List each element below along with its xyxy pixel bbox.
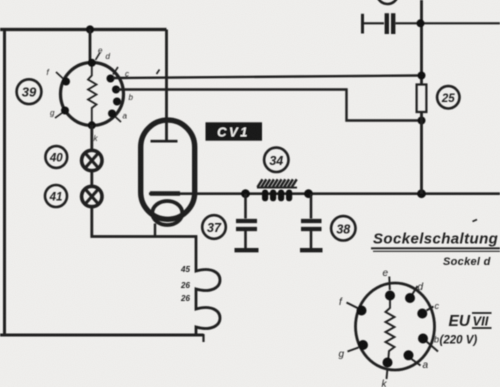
socket EU VII pin e (top) <box>383 268 396 301</box>
tube type text EU VII <box>449 313 492 330</box>
wire: lamp 41 down and across to heater dropper coil <box>92 206 196 268</box>
capacitor 37 lower lead <box>244 231 247 248</box>
terminal tick at end of bottom bus <box>202 334 204 342</box>
junction node at capacitor 38 <box>304 189 313 198</box>
capacitor 38 chassis bar <box>300 248 323 252</box>
capacitor 38 plates <box>301 221 322 229</box>
cathode electrode bar inside tube <box>150 191 180 196</box>
socket EU VII pin b <box>418 334 438 352</box>
socket EU VII outline <box>356 283 435 370</box>
grid wire 2: socket pin b with jog to resistor 25 bottom <box>117 90 422 121</box>
junction node at capacitor 37 <box>241 189 250 198</box>
socket EU VII pin a <box>404 350 429 371</box>
HT vertical bus upper section <box>420 0 423 85</box>
socket EU VII pin k (bottom) <box>382 358 393 387</box>
socket EU VII pin c <box>417 301 439 319</box>
dial lamp 40 <box>82 150 102 170</box>
socket 39 pin f <box>47 68 71 86</box>
tube socket 39 outline <box>61 63 124 126</box>
heading underline <box>371 247 500 249</box>
wire: socket 39 bottom pin to dial lamp 40 <box>90 125 93 151</box>
HT vertical bus lower section <box>420 112 423 194</box>
wire: top horizontal bus <box>0 28 167 31</box>
heading underline second stroke <box>373 250 500 252</box>
junction node at top wire and HT bus <box>417 19 425 27</box>
socket 39 pin c <box>112 70 129 94</box>
stray mark right of capacitor 38 <box>473 220 478 222</box>
choke 34 core baseline <box>257 187 297 189</box>
callout 34 <box>264 148 288 172</box>
pin b voltage label <box>434 335 477 347</box>
choke 34 winding loops <box>262 190 292 202</box>
callout 41 <box>45 185 67 207</box>
coupling capacitor plates (top right) <box>387 13 393 34</box>
callout 25 <box>437 86 459 108</box>
socket 39 pin a <box>108 110 128 123</box>
socket 39 pin g <box>50 107 69 119</box>
tube CV1 base stem wire <box>154 224 156 237</box>
resistor 25 <box>417 85 427 113</box>
capacitor 37 chassis bar <box>235 248 259 252</box>
dropper coil loops <box>196 268 220 335</box>
wire: lamp 40 to lamp 41 <box>90 170 93 187</box>
paper grain <box>0 0 1 1</box>
socket 39 pin k (bottom) <box>88 121 99 143</box>
choke 34 core hatching <box>258 179 297 187</box>
grid wire 1: socket pin c to resistor 25 top <box>113 76 422 79</box>
junction node at resistor 25 top <box>418 72 426 80</box>
wire: bottom horizontal bus <box>0 334 204 337</box>
callout 39 <box>17 79 42 104</box>
wire: drop from top bus to socket 39 pin e <box>89 30 92 65</box>
stray mark near pin c wire <box>157 70 160 75</box>
junction node at top bus and socket drop <box>86 25 94 33</box>
heater resistor inside socket 39 <box>88 63 97 125</box>
heater resistor inside socket EU VII <box>386 295 395 363</box>
cathode output wire across to right edge <box>149 192 500 195</box>
socket 39 pin e <box>88 46 103 67</box>
tube CV1 anode electrode <box>151 140 178 143</box>
capacitor 37 plates <box>236 221 257 229</box>
socket 39 pin b <box>113 93 134 106</box>
tube CV1 base circle <box>152 201 182 225</box>
tube CV1 envelope <box>141 120 195 219</box>
socket EU VII pin f <box>339 297 367 316</box>
capacitor 37 lead <box>244 194 247 219</box>
wire: anode drop from top bus into tube CV1 <box>165 30 168 141</box>
tube type label CV1 <box>206 122 263 140</box>
wire: left vertical bus <box>3 30 6 336</box>
socket EU VII pin d <box>405 282 424 303</box>
capacitor 38 lead <box>310 194 313 219</box>
junction node at HT bus bottom <box>417 189 426 198</box>
callout 37 <box>202 215 226 239</box>
callout 40 <box>45 146 67 168</box>
partial callout above top edge <box>377 0 398 4</box>
callout 38 <box>331 216 355 240</box>
socket 39 pin d <box>106 52 119 83</box>
top right feed wire <box>363 22 500 24</box>
socket EU VII pin g <box>339 340 369 360</box>
terminal bar <box>361 14 364 34</box>
junction node at resistor 25 bottom <box>418 117 426 125</box>
capacitor 38 lower lead <box>310 231 313 248</box>
dial lamp 41 <box>82 186 102 206</box>
